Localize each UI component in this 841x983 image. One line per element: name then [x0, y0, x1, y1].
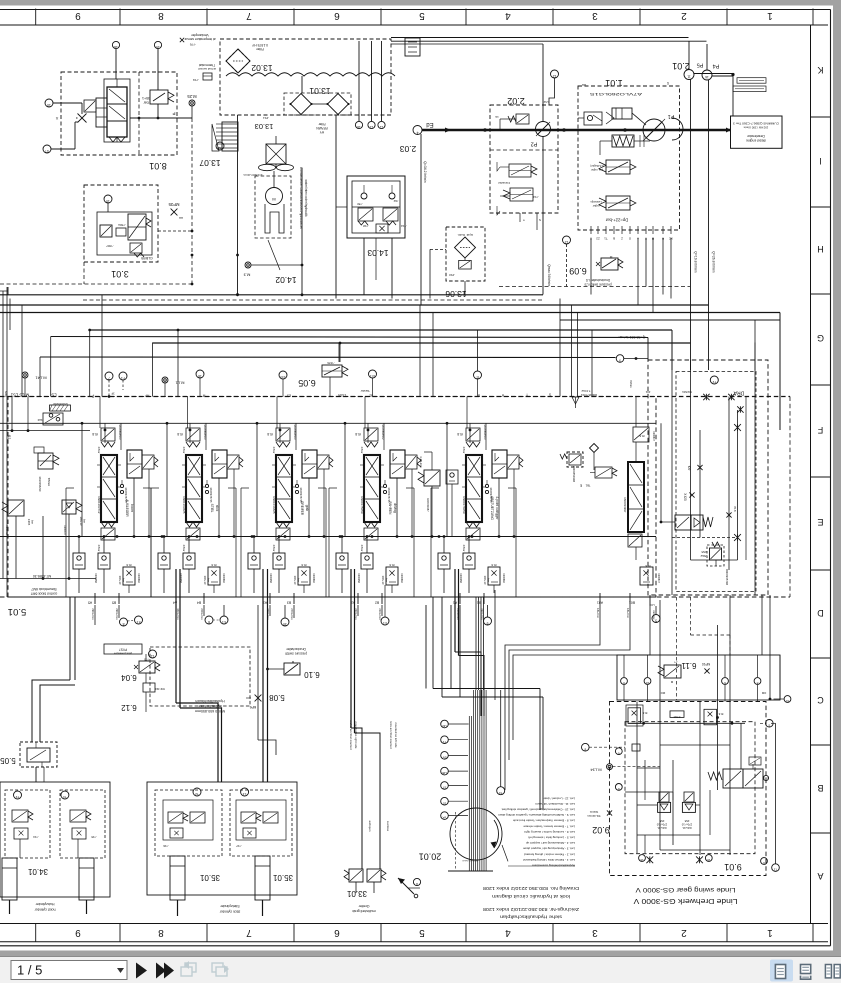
svg-text:R901163825: R901163825 — [182, 497, 186, 514]
svg-text:11: 11 — [687, 75, 691, 79]
pump 1.01 bottom ports row — [590, 226, 673, 241]
pilot line pair P1 sections down — [176, 569, 222, 782]
filter unit 13.06 dashed box — [445, 227, 485, 299]
measuring point M.25 — [187, 94, 197, 118]
svg-text:Zeichngs-Nr. 830.350.2210/2 I: Zeichngs-Nr. 830.350.2210/2 Index 1208 — [482, 907, 579, 912]
svg-text:C: C — [817, 695, 824, 705]
svg-text:R900965798: R900965798 — [725, 569, 729, 585]
check valve 7.0 bar on rail — [572, 389, 597, 408]
svg-text:27bar: 27bar — [97, 447, 101, 454]
svg-text:min/max: min/max — [652, 610, 655, 620]
fuel sensor note — [193, 63, 217, 82]
svg-text:4: 4 — [505, 10, 511, 21]
svg-text:6: 6 — [334, 10, 340, 21]
shuttle valve section E — [459, 540, 475, 593]
terminal strip 13.07 — [212, 122, 238, 151]
svg-text:2: 2 — [681, 927, 687, 938]
hoist cylinder left — [2, 858, 17, 914]
orifice f08 right — [726, 506, 737, 517]
slewing ring circle 20.01 — [419, 808, 502, 862]
svg-text:T: T — [523, 218, 525, 222]
solenoid valve 6.05 — [298, 343, 348, 397]
svg-text:B: B — [817, 783, 823, 793]
svg-text:270+/-10: 270+/-10 — [656, 823, 667, 827]
svg-text:-Y48: -Y48 — [363, 224, 369, 228]
svg-text:R900860: R900860 — [222, 573, 225, 583]
svg-text:P2: P2 — [531, 141, 538, 147]
terminal circle below section C — [281, 618, 289, 626]
svg-text:f14mm: f14mm — [589, 810, 598, 814]
svg-text:R901016825: R901016825 — [272, 496, 276, 514]
drawing number note german — [482, 907, 579, 920]
svg-text:OM: OM — [761, 691, 766, 695]
label 5.01 — [8, 606, 27, 617]
svg-text:5.05: 5.05 — [0, 756, 16, 765]
svg-text:FAHREN: FAHREN — [388, 502, 392, 516]
wires inside DRA — [661, 360, 755, 595]
pilot rail dashed horizontal left — [0, 283, 192, 285]
bottom pilot cap section B — [182, 522, 200, 551]
svg-text:390+10: 390+10 — [203, 576, 207, 585]
power regulator valve — [590, 196, 636, 210]
svg-text:27bar: 27bar — [360, 447, 364, 454]
svg-text:27bar: 27bar — [272, 545, 276, 552]
svg-text:M.L1: M.L1 — [175, 381, 185, 386]
svg-text:T2: T2 — [218, 146, 222, 150]
section port line extensions — [119, 605, 656, 622]
orifice f09 — [687, 465, 703, 471]
main directional spool section D — [360, 455, 384, 522]
port relief valve section B — [203, 563, 225, 593]
second shuttle valve section E — [438, 535, 450, 593]
svg-text:+5bar: +5bar — [700, 554, 707, 558]
svg-text:bar: bar — [83, 519, 86, 523]
svg-text:M.L41: M.L41 — [35, 376, 47, 381]
pressure compensator section C — [299, 450, 333, 503]
shuttle with filter drehwerk — [640, 564, 660, 585]
svg-text:Leit. 10 - Gefahrenschaltg sch: Leit. 10 - Gefahrenschaltg schnell / gea… — [501, 808, 575, 812]
wires drehwerk dashed down — [495, 590, 730, 723]
pilot line pair P2 sections down — [263, 569, 268, 782]
svg-text:control block 6M7: control block 6M7 — [31, 592, 58, 596]
svg-text:SS-41/min: SS-41/min — [587, 814, 601, 818]
svg-text:Leit. 3 - Abstuetzung ab / sup: Leit. 3 - Abstuetzung ab / support down — [523, 847, 575, 851]
section feed riser D — [344, 422, 387, 537]
stick cylinder left — [170, 856, 185, 916]
relief valve 365+10 bar — [62, 500, 86, 536]
port lines section A down — [32, 597, 119, 742]
port lines section B down — [180, 605, 204, 616]
swing gear inner dashed box 9.01 — [625, 722, 755, 854]
svg-text:R900958: R900958 — [357, 573, 360, 583]
svg-text:14.02: 14.02 — [275, 275, 297, 285]
svg-text:M: M — [609, 255, 612, 259]
section riser wires — [100, 397, 486, 451]
svg-text:M40: M40 — [4, 391, 8, 397]
svg-text:13.03: 13.03 — [255, 122, 274, 131]
svg-text:9.2 3x3.5 3x5.8: 9.2 3x3.5 3x5.8 — [462, 859, 478, 861]
grab line right-side note — [349, 720, 358, 750]
svg-text:-W2: -W2 — [393, 199, 398, 203]
port relief valve section D — [381, 563, 403, 593]
swing gear dashed enclosure 9.02 — [610, 702, 767, 876]
svg-text:R900860: R900860 — [312, 573, 315, 583]
svg-text:G: G — [817, 333, 824, 343]
svg-text:390+10: 390+10 — [118, 576, 122, 585]
svg-text:DRA: DRA — [733, 390, 744, 396]
wire 13.06 stub — [430, 249, 465, 260]
port circle ST left of 8.01 — [43, 122, 78, 153]
svg-text:-Y44: -Y44 — [533, 195, 539, 199]
orifice MP6 5.08 — [246, 605, 285, 740]
svg-text:R900458: R900458 — [5, 525, 8, 535]
svg-text:6.04: 6.04 — [121, 673, 137, 682]
svg-text:9.1: 9.1 — [383, 621, 387, 625]
relief valve 2N5 +5bar — [700, 542, 729, 585]
svg-text:P: P — [172, 111, 175, 116]
svg-text:B3: B3 — [287, 601, 291, 605]
label 9.01 — [724, 862, 742, 872]
svg-text:MP6: MP6 — [250, 705, 257, 709]
svg-text:11: 11 — [151, 654, 155, 658]
wire compensator to bus section D — [366, 469, 414, 540]
slip ring base comb — [448, 859, 493, 871]
svg-text:5.01: 5.01 — [8, 606, 27, 617]
single page view icon (selected) — [770, 960, 793, 982]
bottom pilot cap section D — [360, 522, 378, 551]
svg-text:R900176059: R900176059 — [462, 496, 466, 514]
terminal circle below section E — [484, 617, 492, 625]
svg-text:regler: regler — [593, 204, 600, 208]
svg-text:3-45L/min: 3-45L/min — [419, 456, 423, 468]
drehwerk solenoid valve head — [633, 427, 655, 442]
LS regulator valve — [590, 160, 636, 174]
svg-text:10: 10 — [443, 801, 447, 805]
slip ring bundle upper extensions — [476, 597, 484, 690]
outrigger bold pair to bundle — [455, 569, 484, 716]
svg-text:6.11: 6.11 — [681, 661, 697, 670]
svg-text:3HF: 3HF — [37, 418, 42, 422]
svg-text:Stielzylinder: Stielzylinder — [220, 904, 240, 908]
svg-text:5: 5 — [419, 10, 425, 21]
pilot solenoid cap section C — [272, 425, 297, 454]
section name E — [490, 496, 499, 520]
svg-text:S: S — [667, 81, 669, 85]
svg-text:PVS7: PVS7 — [119, 648, 127, 652]
wire 5.05 to hoist block — [36, 767, 44, 782]
svg-text:-Y36: -Y36 — [163, 844, 169, 848]
svg-text:7B1: 7B1 — [585, 484, 590, 488]
stick block sub assembly left — [155, 788, 222, 882]
block internal bus line — [0, 514, 96, 580]
orifice f12 riser — [0, 397, 90, 440]
svg-text:270L/min: 270L/min — [290, 608, 294, 620]
svg-text:links am Stiel montiert: links am Stiel montiert — [389, 721, 393, 749]
small junction box on line — [632, 744, 640, 751]
svg-text:Ed: Ed — [426, 121, 433, 127]
check valve f0.6 right — [704, 709, 723, 725]
svg-text:20.01: 20.01 — [419, 852, 442, 862]
hydraulic motor for fan dashed box — [255, 171, 291, 238]
svg-text:35+1: 35+1 — [142, 96, 150, 100]
svg-text:12: 12 — [553, 74, 557, 78]
hoist cylinder caption — [34, 902, 56, 912]
svg-text:R900860: R900860 — [400, 573, 403, 583]
svg-text:f0.8: f0.8 — [301, 563, 306, 567]
label 2.03 — [399, 144, 416, 154]
svg-text:CUMMINS QSB6.7-C260 Tier 3: CUMMINS QSB6.7-C260 Tier 3 — [732, 122, 779, 126]
svg-text:bar: bar — [297, 578, 300, 582]
port circle 10 left of 8.01 — [45, 99, 82, 114]
svg-text:2: 2 — [681, 10, 687, 21]
svg-text:-Y75: -Y75 — [144, 658, 150, 662]
svg-text:look at hydraulic circuit diag: look at hydraulic circuit diagram — [492, 894, 570, 899]
main directional spool section A — [97, 455, 121, 522]
swing circle T2 bottom right — [771, 723, 779, 871]
svg-text:Leit. 2 - Fahren rechts / driv: Leit. 2 - Fahren rechts / drivng forward — [524, 852, 575, 856]
page number combo box 1 / 5 — [11, 961, 127, 980]
wire riser left a — [10, 299, 22, 397]
section feed riser C — [256, 422, 299, 537]
valve block 3.01 dashed enclosure — [84, 185, 158, 262]
section name D — [388, 502, 397, 516]
hoist block sub valve left — [5, 790, 50, 858]
orifice star bottom — [734, 534, 741, 541]
svg-text:B2: B2 — [375, 601, 379, 605]
port lines section D down — [358, 605, 382, 616]
svg-text:Linde Drehwerk GS-3000 V: Linde Drehwerk GS-3000 V — [633, 897, 737, 906]
shuttle valve section D — [357, 540, 373, 593]
slip ring feed pair from outriggers — [433, 597, 543, 810]
svg-text:Leit. 11 - Ruecklauf / oil ret: Leit. 11 - Ruecklauf / oil return — [535, 802, 575, 806]
svg-text:Qmax 54ltr/min: Qmax 54ltr/min — [547, 264, 551, 286]
swing manifold port circles — [621, 678, 791, 703]
svg-text:Druckschalter LS: Druckschalter LS — [586, 278, 610, 282]
svg-text:18L/min: 18L/min — [596, 608, 600, 618]
grid reference letters right column — [811, 65, 831, 881]
left sheet edge wires — [3, 287, 7, 597]
svg-text:HH: HH — [179, 216, 183, 220]
label 13.01 — [309, 86, 331, 96]
work ports A2 B2 — [351, 593, 382, 620]
pressure switch 6.10 — [258, 647, 320, 755]
terminal circle T9 in 3.01 — [104, 195, 112, 212]
svg-text:0708: 0708 — [673, 715, 680, 719]
drehwerk work ports A01 B01 — [596, 593, 655, 620]
stick cylinder block 35.01 frame — [147, 782, 297, 895]
delta p label — [605, 218, 628, 223]
directional valve 8.01 spool — [104, 79, 130, 142]
svg-text:8: 8 — [416, 882, 418, 886]
orifice 0.8 section C — [267, 423, 281, 443]
check valve f0.6 left — [626, 705, 647, 726]
svg-text:27bar: 27bar — [462, 447, 466, 454]
svg-text:R900860: R900860 — [137, 573, 140, 583]
svg-text:3: 3 — [592, 10, 598, 21]
port label X and P valve 8.01 — [55, 111, 175, 121]
wire cooler feed double line — [391, 38, 707, 45]
svg-text:-P10: -P10 — [449, 273, 455, 277]
svg-text:6.1: 6.1 — [222, 620, 226, 624]
slip ring connection list — [498, 796, 575, 867]
wire compensator to bus section B — [188, 469, 236, 540]
svg-text:4-point outrigger: 4-point outrigger — [495, 496, 499, 520]
svg-text:-Y37: -Y37 — [236, 844, 242, 848]
gear pump P2 — [420, 44, 551, 213]
svg-text:Leit. 8 - Bremse Vorderachse /: Leit. 8 - Bremse Vorderachse / brake fro… — [513, 819, 575, 823]
svg-text:P: P — [91, 394, 94, 399]
pressure reducing valve drehwerk — [660, 515, 713, 530]
stick cylinder caption — [219, 904, 240, 914]
terminal circle T12 above 2.02 — [543, 70, 558, 105]
hydraulic hose dashed box — [150, 647, 250, 713]
svg-text:8: 8 — [158, 927, 164, 938]
terminal circle T2 above slip ring — [497, 690, 505, 795]
svg-text:35.01: 35.01 — [199, 873, 220, 882]
wire compensator to bus section E — [468, 469, 516, 540]
svg-text:R90041987: R90041987 — [426, 498, 430, 512]
svg-text:H: H — [817, 244, 824, 254]
swing circles T6 — [615, 748, 622, 791]
svg-text:f0/min: f0/min — [629, 380, 633, 388]
port relief valve section A — [118, 563, 140, 593]
swing motor brake valves right — [681, 792, 695, 830]
pressure relief valve 35+1 bar — [142, 90, 174, 105]
port relief valve section E — [483, 563, 505, 593]
svg-text:Hydraulikschleifring connectio: Hydraulikschleifring connections — [532, 864, 575, 868]
svg-text:9: 9 — [75, 927, 81, 938]
swing motor brake valves left — [656, 792, 670, 830]
wire LS rail risers middle — [340, 305, 478, 397]
section name C — [300, 501, 309, 516]
svg-text:RF/WIN: RF/WIN — [316, 126, 328, 130]
svg-text:9.01: 9.01 — [724, 862, 742, 872]
main suction trunk Ed — [413, 121, 731, 183]
terminal circle 8 dashed left — [582, 743, 626, 751]
orifice 0.8 section A — [92, 423, 106, 443]
hatch plate R900583847 — [50, 402, 71, 411]
svg-text:B4: B4 — [197, 601, 201, 605]
svg-text:Dp=22+-bar: Dp=22+-bar — [605, 218, 628, 223]
svg-text:27bar: 27bar — [182, 545, 186, 552]
svg-text:bar: bar — [122, 578, 125, 582]
svg-text:Verdampfer: Verdampfer — [190, 33, 208, 37]
svg-text:34.01: 34.01 — [27, 867, 48, 876]
svg-text:R900868500: R900868500 — [483, 425, 487, 440]
svg-text:1 / 5: 1 / 5 — [17, 963, 42, 978]
svg-text:stick: stick — [215, 505, 219, 512]
svg-text:auf/open: auf/open — [368, 821, 372, 832]
swing gear title english — [634, 886, 735, 893]
svg-text:STIEL: STIEL — [210, 504, 214, 513]
wires to grab — [351, 569, 380, 869]
swing inner extra wires — [637, 760, 710, 853]
orifice stars on LS rail — [703, 394, 743, 413]
svg-text:R900868500: R900868500 — [203, 425, 207, 440]
svg-text:T1: T1 — [442, 740, 446, 744]
svg-text:270+/-10: 270+/-10 — [681, 823, 692, 827]
label 13.03 and filter note — [255, 116, 328, 134]
orifice 6.12 — [121, 683, 165, 712]
label 9.02 — [587, 810, 612, 835]
svg-text:X: X — [55, 116, 58, 121]
svg-text:Greifer: Greifer — [358, 904, 370, 908]
hoist cylinder right — [79, 858, 94, 914]
svg-text:1: 1 — [767, 10, 773, 21]
pilot rail dashed mid — [0, 287, 543, 300]
svg-text:f0.8: f0.8 — [457, 432, 463, 436]
supply trunk line 4 — [0, 313, 780, 431]
shuttle valve section A — [94, 540, 110, 593]
svg-text:2N5: 2N5 — [701, 550, 707, 554]
svg-text:f0.8: f0.8 — [267, 432, 273, 436]
svg-text:6.12: 6.12 — [121, 703, 137, 712]
svg-text:Filter: Filter — [318, 122, 326, 126]
mounting arrow bottom left — [398, 878, 418, 898]
svg-text:13.07: 13.07 — [199, 158, 221, 168]
shuttle valve section C — [269, 540, 285, 593]
viewer bottom gray strip — [0, 951, 841, 958]
filter 13.02 — [226, 43, 273, 73]
svg-text:Leit. 5 - Lenkung links / stee: Leit. 5 - Lenkung links / steerng left — [528, 836, 575, 840]
outrigger port lines down bundle — [426, 605, 460, 697]
terminal circle T9 above relief 8.01 — [154, 41, 161, 90]
svg-text:6: 6 — [208, 620, 210, 624]
svg-text:B: B — [613, 237, 615, 241]
terminal circle T12 below 1.01 — [563, 236, 571, 287]
cooler description rotated text — [299, 167, 308, 229]
svg-text:13.02: 13.02 — [251, 63, 273, 73]
section name A — [125, 499, 134, 517]
svg-text:Q=19.8 ltr/min: Q=19.8 ltr/min — [694, 251, 698, 273]
supply trunk line 6 — [153, 342, 691, 345]
slip ring dashed guide — [455, 812, 457, 871]
svg-text:Q=34.2 ltr/min: Q=34.2 ltr/min — [423, 161, 427, 183]
svg-text:T2: T2 — [499, 791, 503, 795]
label 13.07 and circle T2 — [199, 142, 224, 168]
svg-text:Drawing No. 830.350.2210/2 In: Drawing No. 830.350.2210/2 Index 1208 — [482, 886, 579, 891]
svg-text:pos. regler: pos. regler — [591, 168, 603, 172]
hoist block sub valve right — [60, 790, 105, 858]
rotary union terminal circles — [441, 720, 468, 820]
svg-text:B01: B01 — [629, 601, 635, 605]
svg-text:R900175059: R900175059 — [360, 496, 364, 514]
svg-text:T2: T2 — [15, 795, 19, 799]
pilot valve R900854998 — [560, 452, 590, 488]
svg-text:8: 8 — [584, 747, 586, 751]
svg-text:-P11: -P11 — [263, 116, 269, 120]
svg-text:R920258239: R920258239 — [38, 477, 42, 492]
svg-text:A5: A5 — [88, 601, 92, 605]
svg-text:Leit. 6 - Lenkung rechts / ste: Leit. 6 - Lenkung rechts / steerng right — [524, 830, 575, 834]
pressure compensator section D — [387, 450, 421, 503]
flow label Q=30-501 — [619, 335, 646, 339]
LS pilot rail dashed — [0, 396, 790, 398]
pilot solenoid cap section B — [182, 425, 207, 454]
svg-text:13.01: 13.01 — [309, 86, 331, 96]
svg-text:Leit. 12 - Leckoel / drain: Leit. 12 - Leckoel / drain — [543, 796, 575, 800]
svg-text:bar: bar — [385, 578, 388, 582]
measuring point M.3 — [243, 262, 304, 278]
terminal circle below section D — [381, 585, 389, 625]
terminal circles 7 and 7.1 — [105, 372, 127, 398]
svg-text:e=1800 U/min: e=1800 U/min — [243, 173, 262, 177]
svg-text:Leit. 1 - Fahren links / drivn: Leit. 1 - Fahren links / drivng backward — [523, 858, 575, 862]
svg-text:39: 39 — [283, 622, 287, 626]
valve block 8.01 dashed enclosure — [61, 72, 177, 155]
hoist cylinder block 34.01 frame — [0, 782, 110, 897]
wire engine auxiliaries — [733, 76, 766, 116]
